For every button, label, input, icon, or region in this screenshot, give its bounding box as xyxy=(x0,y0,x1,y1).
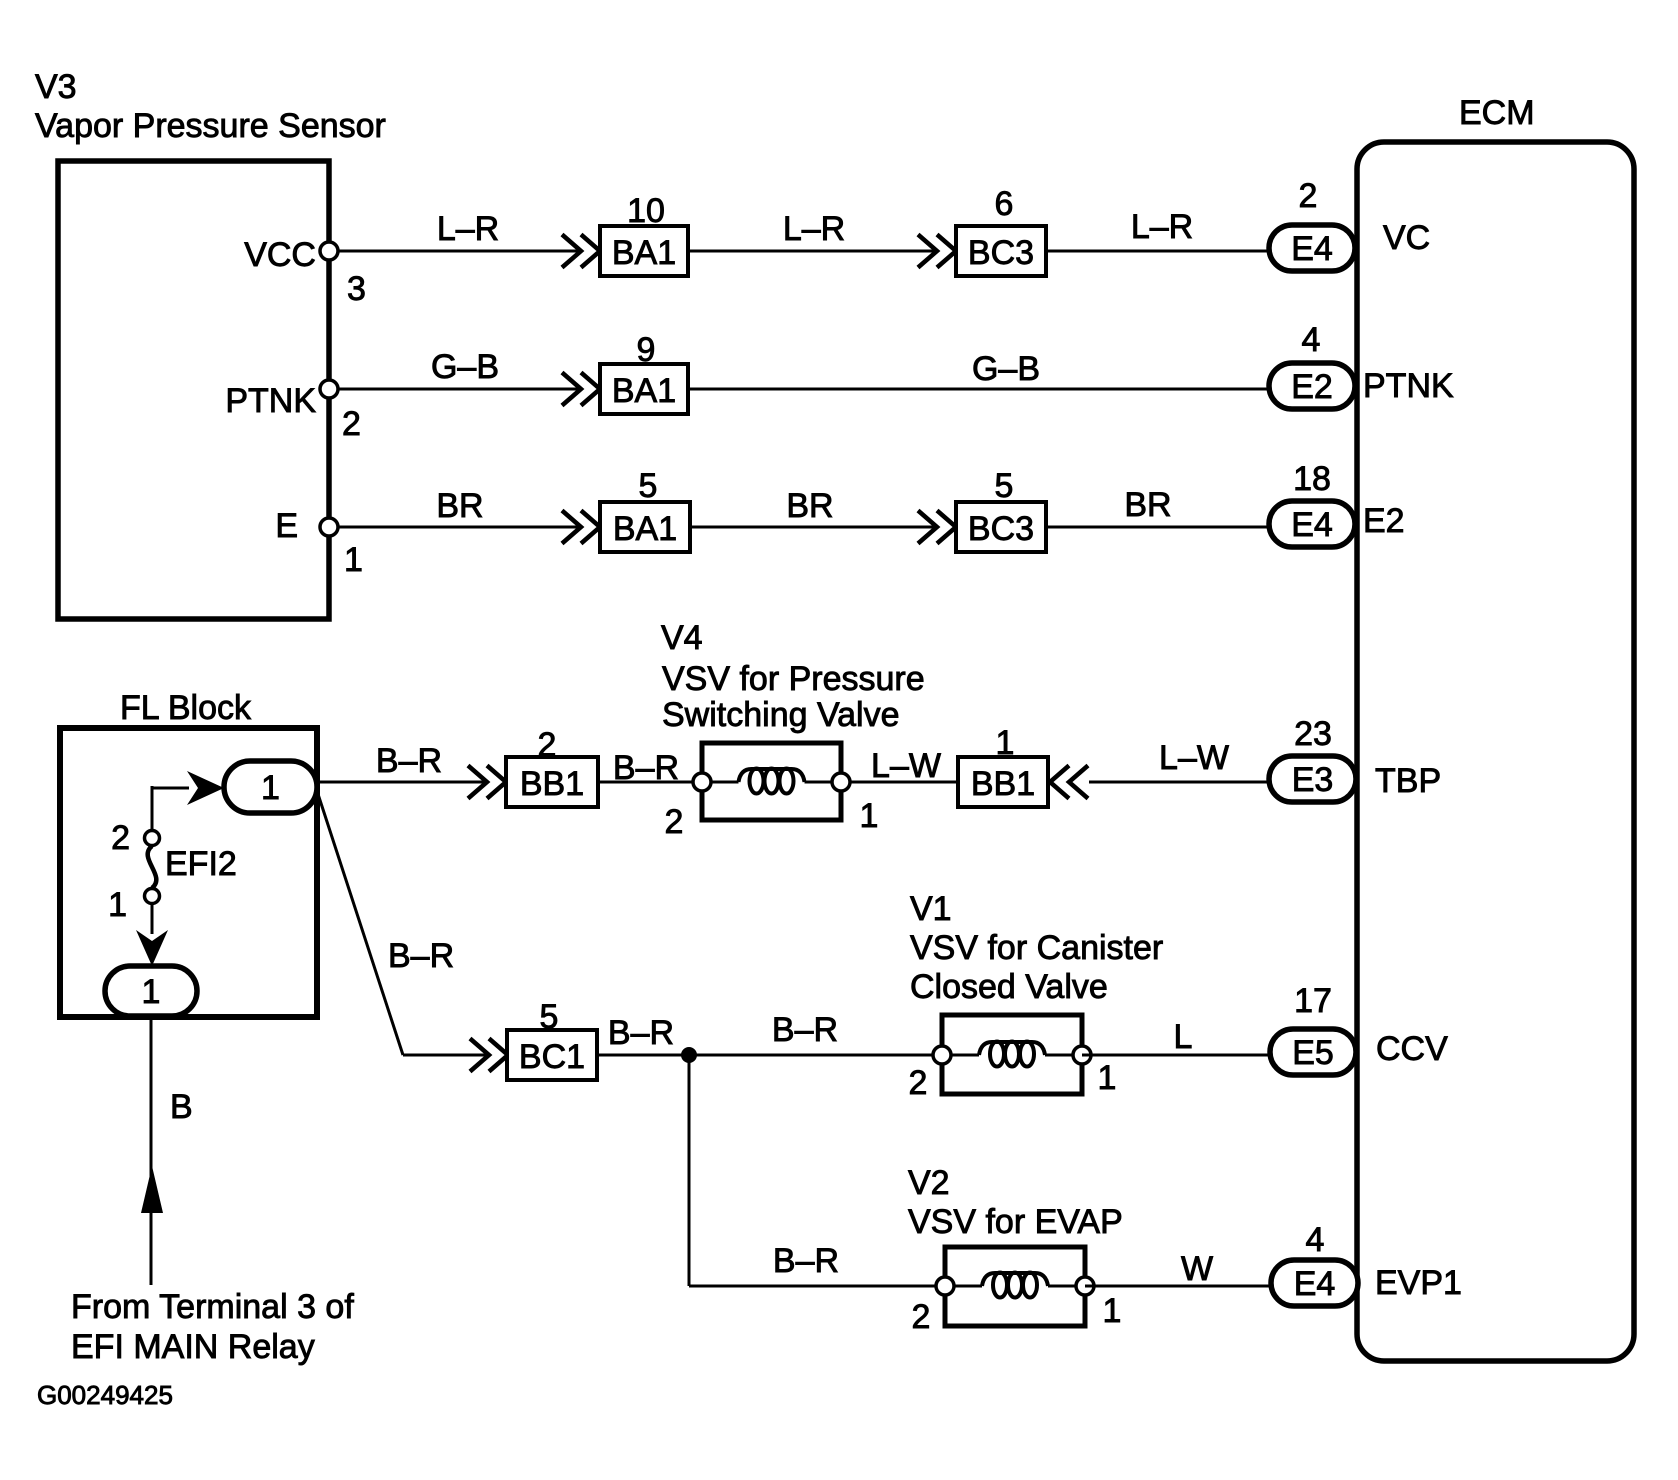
wire from fuse down to arrow xyxy=(151,903,154,934)
svg-text:1: 1 xyxy=(996,724,1015,762)
solid arrow up on wire B xyxy=(141,1166,163,1213)
svg-text:5: 5 xyxy=(540,998,559,1036)
svg-text:BB1: BB1 xyxy=(971,765,1035,803)
wire W from V2 pin 1 to ECM terminal E4 xyxy=(1085,1250,1269,1288)
svg-text:L: L xyxy=(1174,1018,1193,1056)
svg-text:2: 2 xyxy=(1299,177,1318,215)
FL Block terminal oval 1 (top) xyxy=(224,761,317,813)
svg-text:18: 18 xyxy=(1293,460,1331,498)
svg-text:B–R: B–R xyxy=(376,742,442,780)
svg-text:L–R: L–R xyxy=(437,210,499,248)
connector BC1 pin 5 xyxy=(507,998,597,1080)
ECM terminal E5 pin 17 (CCV) xyxy=(1270,982,1448,1075)
svg-text:2: 2 xyxy=(111,819,130,857)
svg-text:V2: V2 xyxy=(908,1164,950,1202)
svg-text:From Terminal 3 of: From Terminal 3 of xyxy=(71,1288,354,1326)
svg-text:BR: BR xyxy=(786,487,833,525)
svg-text:9: 9 xyxy=(637,331,656,369)
solid arrow down to FL terminal 1 (bottom) xyxy=(136,930,168,966)
svg-text:B–R: B–R xyxy=(608,1014,674,1052)
junction connector arrows before BC3 (row 1) xyxy=(918,235,956,268)
svg-text:B: B xyxy=(170,1088,193,1126)
svg-text:B–R: B–R xyxy=(773,1242,839,1280)
ECM module box xyxy=(1357,142,1634,1361)
ECM terminal E4 pin 4 (EVP1) xyxy=(1271,1221,1462,1306)
svg-text:CCV: CCV xyxy=(1376,1030,1448,1068)
pin VCC (3) of V3 xyxy=(244,236,366,308)
svg-text:2: 2 xyxy=(909,1064,928,1102)
svg-text:L–R: L–R xyxy=(783,210,845,248)
svg-text:VSV for EVAP: VSV for EVAP xyxy=(908,1203,1123,1241)
wire B-R from BB1 to V4 pin 2 xyxy=(598,749,702,787)
junction connector arrows before BA1 (row 1) xyxy=(562,235,600,268)
component V3 Vapor Pressure Sensor body xyxy=(58,161,329,619)
svg-text:1: 1 xyxy=(1103,1292,1122,1330)
svg-text:Vapor Pressure Sensor: Vapor Pressure Sensor xyxy=(35,107,386,145)
svg-text:4: 4 xyxy=(1306,1221,1325,1259)
wire B-R vertical from junction down to row 6 xyxy=(688,1055,691,1286)
connector BA1 pin 10 xyxy=(600,192,688,276)
svg-text:E4: E4 xyxy=(1294,1265,1336,1303)
wire B-R from junction to V1 pin 2 xyxy=(689,1011,942,1055)
svg-text:E2: E2 xyxy=(1291,368,1333,406)
wire BR from E pin to junction connector BA1 xyxy=(338,487,581,527)
svg-text:BC3: BC3 xyxy=(968,234,1034,272)
svg-text:PTNK: PTNK xyxy=(225,382,316,420)
svg-text:BC3: BC3 xyxy=(968,510,1034,548)
svg-text:L–W: L–W xyxy=(871,747,941,785)
junction node dot xyxy=(681,1047,697,1063)
label FL Block xyxy=(120,689,252,727)
ECM terminal E4 pin 2 (VC) xyxy=(1269,177,1430,271)
ECM terminal E4 pin 18 (E2) xyxy=(1269,460,1405,547)
wire G-B from PTNK pin to junction connector BA1 xyxy=(338,348,581,389)
ECM terminal E2 pin 4 (PTNK) xyxy=(1269,321,1454,409)
svg-text:2: 2 xyxy=(342,405,361,443)
junction connector arrows after BB1 (row 4) xyxy=(1050,766,1088,799)
svg-text:B–R: B–R xyxy=(613,749,679,787)
junction connector arrows before BA1 (row 3) xyxy=(562,511,600,544)
svg-text:EVP1: EVP1 xyxy=(1375,1264,1462,1302)
svg-text:VSV for Pressure: VSV for Pressure xyxy=(662,660,925,698)
wire L-R from VCC pin to junction connector BA1 xyxy=(338,210,581,251)
svg-text:G00249425: G00249425 xyxy=(37,1380,173,1410)
wire B-R from FL terminal to BB1 (row 4) xyxy=(317,742,488,782)
wire L-R from BA1 to BC3 (row 1) xyxy=(688,210,937,251)
wire L-W from ECM terminal E3 to BB1 xyxy=(1089,739,1267,782)
fuse EFI2 xyxy=(108,819,237,924)
svg-text:TBP: TBP xyxy=(1375,762,1441,800)
wire B-R from junction to V2 pin 2 xyxy=(689,1242,945,1286)
wire L from V1 pin 1 to ECM terminal E5 xyxy=(1082,1018,1269,1056)
svg-text:BC1: BC1 xyxy=(519,1038,585,1076)
svg-text:VSV for Canister: VSV for Canister xyxy=(910,929,1163,967)
svg-text:ECM: ECM xyxy=(1459,94,1535,132)
svg-text:BA1: BA1 xyxy=(613,510,677,548)
svg-text:1: 1 xyxy=(860,797,879,835)
wire L-W from V4 pin 1 to BB1 xyxy=(850,747,958,785)
svg-text:EFI MAIN Relay: EFI MAIN Relay xyxy=(71,1328,315,1366)
note From Terminal 3 of EFI MAIN Relay xyxy=(71,1288,354,1366)
svg-text:23: 23 xyxy=(1294,715,1332,753)
svg-text:BR: BR xyxy=(436,487,483,525)
svg-text:E3: E3 xyxy=(1292,761,1334,799)
wire from fuse EFI2 up to arrow xyxy=(152,786,189,831)
connector BA1 pin 5 xyxy=(600,467,690,552)
svg-text:EFI2: EFI2 xyxy=(165,845,237,883)
wire B-R from BC1 to junction node xyxy=(597,1014,689,1055)
svg-text:1: 1 xyxy=(142,973,161,1011)
figure id G00249425 xyxy=(37,1380,173,1410)
svg-text:E: E xyxy=(275,507,298,545)
svg-text:E5: E5 xyxy=(1292,1034,1334,1072)
solenoid valve V4 with pins 2 and 1 xyxy=(665,743,879,841)
svg-text:L–R: L–R xyxy=(1131,208,1193,246)
svg-text:BA1: BA1 xyxy=(612,234,676,272)
svg-text:17: 17 xyxy=(1294,982,1332,1020)
svg-text:B–R: B–R xyxy=(772,1011,838,1049)
label ECM xyxy=(1459,94,1535,132)
label V1 VSV for Canister Closed Valve xyxy=(910,890,1163,1006)
wire B from EFI MAIN relay up to FL terminal xyxy=(151,1016,193,1285)
wire BR from BC3 to ECM terminal E4-18 xyxy=(1046,486,1267,527)
label V2 VSV for EVAP xyxy=(908,1164,1123,1241)
svg-text:G–B: G–B xyxy=(431,348,499,386)
svg-text:1: 1 xyxy=(1098,1059,1117,1097)
svg-text:4: 4 xyxy=(1302,321,1321,359)
svg-text:L–W: L–W xyxy=(1159,739,1229,777)
connector BB1 pin 2 xyxy=(506,726,598,807)
svg-text:W: W xyxy=(1181,1250,1213,1288)
label V4 VSV for Pressure Switching Valve xyxy=(661,619,925,734)
svg-text:1: 1 xyxy=(108,886,127,924)
svg-text:1: 1 xyxy=(261,769,280,807)
svg-text:FL Block: FL Block xyxy=(120,689,252,727)
connector BC3 pin 5 xyxy=(956,467,1046,552)
svg-text:E4: E4 xyxy=(1291,506,1333,544)
svg-text:V1: V1 xyxy=(910,890,952,928)
connector BB1 pin 1 xyxy=(958,724,1048,807)
FL Block terminal oval 1 (bottom) xyxy=(105,966,197,1016)
svg-text:BR: BR xyxy=(1124,486,1171,524)
svg-text:V3: V3 xyxy=(35,68,77,106)
junction connector arrows before BB1 (row 4) xyxy=(468,766,506,799)
svg-text:V4: V4 xyxy=(661,619,703,657)
svg-text:5: 5 xyxy=(639,467,658,505)
svg-text:2: 2 xyxy=(665,803,684,841)
connector BA1 pin 9 xyxy=(600,331,688,414)
svg-text:VC: VC xyxy=(1383,219,1430,257)
svg-text:BA1: BA1 xyxy=(612,372,676,410)
svg-text:6: 6 xyxy=(995,185,1014,223)
connector BC3 pin 6 xyxy=(956,185,1046,276)
svg-text:G–B: G–B xyxy=(972,350,1040,388)
junction connector arrows before BC1 (row 5) xyxy=(470,1039,508,1072)
solid arrow into FL terminal 1 xyxy=(187,771,224,805)
svg-text:1: 1 xyxy=(344,541,363,579)
pin E (1) of V3 xyxy=(275,507,363,579)
svg-text:VCC: VCC xyxy=(244,236,316,274)
svg-text:2: 2 xyxy=(538,726,557,764)
svg-text:E2: E2 xyxy=(1363,502,1405,540)
pin PTNK (2) of V3 xyxy=(225,380,361,443)
svg-text:Closed Valve: Closed Valve xyxy=(910,968,1108,1006)
ECM terminal E3 pin 23 (TBP) xyxy=(1269,715,1441,802)
svg-text:5: 5 xyxy=(995,467,1014,505)
wire L-R from BC3 to ECM terminal E4-2 xyxy=(1046,208,1267,251)
wire B-R diagonal from FL terminal down to BC1 xyxy=(317,791,488,1055)
solenoid valve V1 with pins 2 and 1 xyxy=(909,1015,1117,1102)
junction connector arrows before BC3 (row 3) xyxy=(918,511,956,544)
wire G-B from BA1 to ECM terminal E2-4 xyxy=(688,350,1267,389)
svg-text:BB1: BB1 xyxy=(520,765,584,803)
svg-text:2: 2 xyxy=(912,1298,931,1336)
wire BR from BA1 to BC3 (row 3) xyxy=(690,487,937,527)
svg-text:E4: E4 xyxy=(1291,230,1333,268)
svg-text:B–R: B–R xyxy=(388,937,454,975)
solenoid valve V2 with pins 2 and 1 xyxy=(912,1247,1122,1336)
label V3 Vapor Pressure Sensor xyxy=(35,68,386,145)
svg-text:Switching Valve: Switching Valve xyxy=(662,696,900,734)
svg-text:3: 3 xyxy=(347,270,366,308)
FL Block box xyxy=(60,728,317,1017)
junction connector arrows before BA1 (row 2) xyxy=(562,373,600,406)
svg-text:PTNK: PTNK xyxy=(1363,367,1454,405)
svg-text:10: 10 xyxy=(627,192,665,230)
